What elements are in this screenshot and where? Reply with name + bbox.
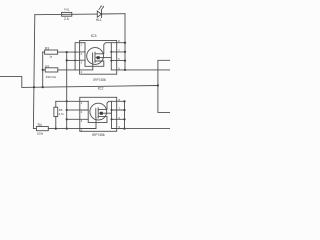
fuse FU1 [62,12,72,16]
junction V3 pin2 IC2 [66,109,68,111]
wire left rail [33,15,34,129]
wire IC2 right pins to bus [117,101,125,128]
resistor R3 [43,50,80,54]
mosfet IC3 [80,43,112,70]
junction V3 pin3 IC2 [66,118,68,120]
pin numbers IC3 left [81,43,83,74]
junction busL row3 [74,60,76,62]
svg-text:2: 2 [81,52,83,56]
svg-text:IC2: IC2 [98,87,104,91]
op IC3 box [80,41,117,75]
junction V5-input [157,84,159,86]
junction bus row3 [124,60,126,62]
junction bus2 row3 [123,118,125,120]
LED HL1 [97,5,104,17]
junction bus2 row1 [123,100,125,102]
junction inner2 row2 [111,109,113,111]
wire input left step [0,77,158,88]
svg-text:R3: R3 [45,46,49,50]
junction R4 wire R5 [55,128,57,130]
svg-text:3: 3 [81,61,83,65]
wire resistor bus V2 [42,52,44,87]
junction bus row4 [124,69,126,71]
svg-text:1: 1 [81,43,83,47]
junction bus row1 [124,42,126,44]
pin numbers IC3 right [118,39,120,70]
junction bus2 row4 [123,128,125,130]
svg-text:4: 4 [81,128,83,132]
pin numbers IC2 right [119,98,121,129]
svg-text:FU1: FU1 [64,7,70,11]
svg-text:IRF7456: IRF7456 [92,133,104,137]
wire row3 from V3 [67,59,80,61]
junction inner row2 [110,51,112,53]
svg-text:4: 4 [81,70,83,74]
svg-text:R4: R4 [38,123,42,127]
svg-text:IRF7456: IRF7456 [93,78,105,82]
wire output source [117,128,170,130]
wire IC2 pin3 row [67,118,80,120]
resistor R4 [33,127,79,131]
junction V2-input [42,86,44,88]
wire right bus top [124,14,126,70]
wire top supply [35,14,125,15]
svg-text:2 А: 2 А [64,17,70,21]
wire IC3 left bus [75,43,80,70]
wire gate bus V3 [66,52,68,129]
junction R3-busL [74,51,76,53]
wire IC2 pin2 row [67,109,80,111]
pin numbers IC2 left [81,101,83,132]
junction V3 pin1 IC2 [66,100,68,102]
wire IC2 pin1 row [56,100,80,102]
junction V3 bottom [66,128,68,130]
svg-text:2: 2 [81,110,83,114]
transistor circle IC3 [87,48,104,65]
wire IC2 inner right bus [112,101,117,128]
wire IC3 right pins to bus [117,43,125,70]
junction LED apex [101,13,103,15]
svg-text:330 Ом: 330 Ом [46,75,56,79]
junction bus2 row2 [123,109,125,111]
junction V2-R2 [42,69,44,71]
svg-text:3: 3 [81,119,83,123]
op IC2 box [80,97,117,131]
transistor circle IC2 [90,103,107,120]
svg-text:IC3: IC3 [91,34,97,38]
wire right branch V5 [158,60,170,112]
svg-text:4,7к: 4,7к [59,112,65,116]
svg-text:1к: 1к [49,55,53,59]
junction V3 row3 [66,59,68,61]
wire output drain [125,69,170,71]
junction inner2 row3 [111,118,113,120]
mosfet IC2 [80,101,112,128]
svg-text:R2: R2 [45,65,49,69]
svg-text:1: 1 [81,101,83,105]
resistor R5 [54,101,58,128]
resistor R2 [43,68,80,72]
junction R3-V3 [66,51,68,53]
wire IC2 right bus [124,101,126,128]
wire IC3 inner right bus [111,43,116,70]
junction inner row3 [110,60,112,62]
svg-text:100к: 100к [37,131,44,135]
svg-text:HL1: HL1 [96,18,102,22]
junction rail-input [33,86,35,88]
junction bus row2 [124,51,126,53]
